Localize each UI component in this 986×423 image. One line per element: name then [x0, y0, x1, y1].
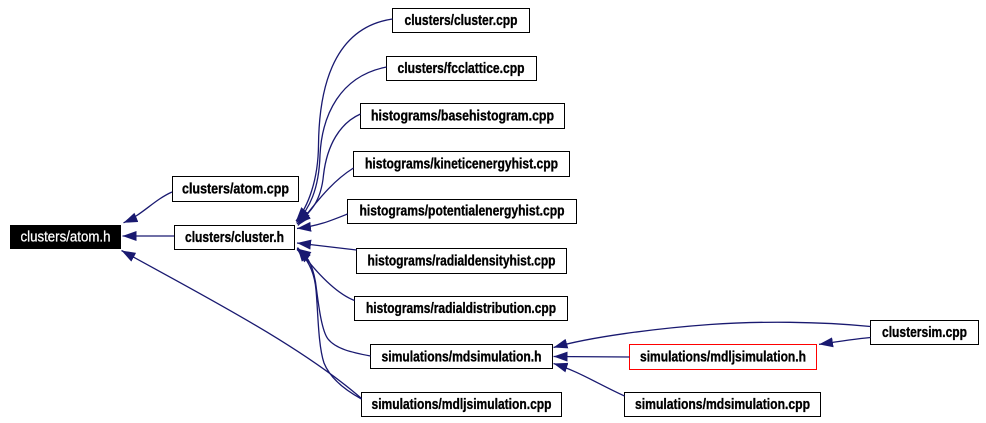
- edge simulations/mdljsimulation.cpp -> clusters/cluster.h: [297, 250, 362, 400]
- node clusters/fcclattice.cpp: [387, 57, 537, 81]
- svg-text:simulations/mdljsimulation.cpp: simulations/mdljsimulation.cpp: [372, 396, 552, 413]
- edge simulations/mdljsimulation.h -> simulations/mdsimulation.h: [554, 356, 630, 359]
- node histograms/radialdensityhist.cpp: [357, 249, 567, 274]
- edge clusters/cluster.h -> clusters/atom.h: [123, 235, 175, 237]
- edge histograms/kineticenergyhist.cpp -> clusters/cluster.h: [298, 168, 354, 226]
- node clusters/atom.cpp: [173, 177, 299, 202]
- node histograms/potentialenergyhist.cpp: [348, 200, 577, 224]
- edge clusters/atom.cpp -> clusters/atom.h: [124, 192, 173, 223]
- svg-text:simulations/mdljsimulation.h: simulations/mdljsimulation.h: [640, 349, 806, 366]
- node clusters/cluster.cpp: [393, 9, 530, 33]
- edge simulations/mdsimulation.h -> clusters/cluster.h: [297, 249, 371, 357]
- node clustersim.cpp: [871, 321, 979, 345]
- edge histograms/radialdistribution.cpp -> clusters/cluster.h: [298, 248, 355, 301]
- edge simulations/mdljsimulation.cpp -> clusters/atom.h: [122, 251, 362, 399]
- svg-text:simulations/mdsimulation.h: simulations/mdsimulation.h: [382, 349, 542, 366]
- node histograms/radialdistribution.cpp: [355, 297, 568, 321]
- node simulations/mdsimulation.cpp: [625, 393, 821, 417]
- svg-text:clusters/atom.cpp: clusters/atom.cpp: [182, 181, 289, 198]
- svg-text:histograms/potentialenergyhist: histograms/potentialenergyhist.cpp: [360, 203, 565, 220]
- node clusters/cluster.h: [175, 226, 295, 250]
- node histograms/basehistogram.cpp: [361, 104, 565, 129]
- edge clusters/fcclattice.cpp -> clusters/cluster.h: [297, 67, 387, 223]
- edge histograms/basehistogram.cpp -> clusters/cluster.h: [297, 114, 361, 224]
- svg-text:simulations/mdsimulation.cpp: simulations/mdsimulation.cpp: [635, 396, 810, 413]
- node histograms/kineticenergyhist.cpp: [354, 152, 570, 177]
- svg-text:histograms/radialdensityhist.c: histograms/radialdensityhist.cpp: [368, 253, 556, 270]
- edge histograms/potentialenergyhist.cpp -> clusters/cluster.h: [297, 214, 348, 229]
- svg-text:clusters/cluster.h: clusters/cluster.h: [185, 229, 284, 246]
- node simulations/mdljsimulation.h (red): [630, 345, 817, 370]
- node simulations/mdljsimulation.cpp: [362, 393, 562, 417]
- edge simulations/mdsimulation.cpp -> simulations/mdsimulation.h: [554, 364, 625, 397]
- edge histograms/radialdensityhist.cpp -> clusters/cluster.h: [297, 243, 357, 250]
- svg-text:clusters/fcclattice.cpp: clusters/fcclattice.cpp: [398, 60, 525, 77]
- svg-text:histograms/kineticenergyhist.c: histograms/kineticenergyhist.cpp: [365, 156, 558, 173]
- node simulations/mdsimulation.h: [371, 345, 553, 369]
- edge clustersim.cpp -> simulations/mdljsimulation.h: [819, 338, 871, 345]
- svg-text:clustersim.cpp: clustersim.cpp: [882, 324, 967, 341]
- edge clusters/cluster.cpp -> clusters/cluster.h: [296, 19, 393, 221]
- svg-text:histograms/basehistogram.cpp: histograms/basehistogram.cpp: [371, 108, 554, 125]
- edge clustersim.cpp -> simulations/mdsimulation.h: [554, 322, 871, 347]
- svg-text:clusters/cluster.cpp: clusters/cluster.cpp: [405, 12, 518, 29]
- svg-text:histograms/radialdistribution.: histograms/radialdistribution.cpp: [366, 300, 556, 317]
- node clusters/atom.h (current, black): [10, 225, 121, 249]
- svg-text:clusters/atom.h: clusters/atom.h: [21, 229, 111, 246]
